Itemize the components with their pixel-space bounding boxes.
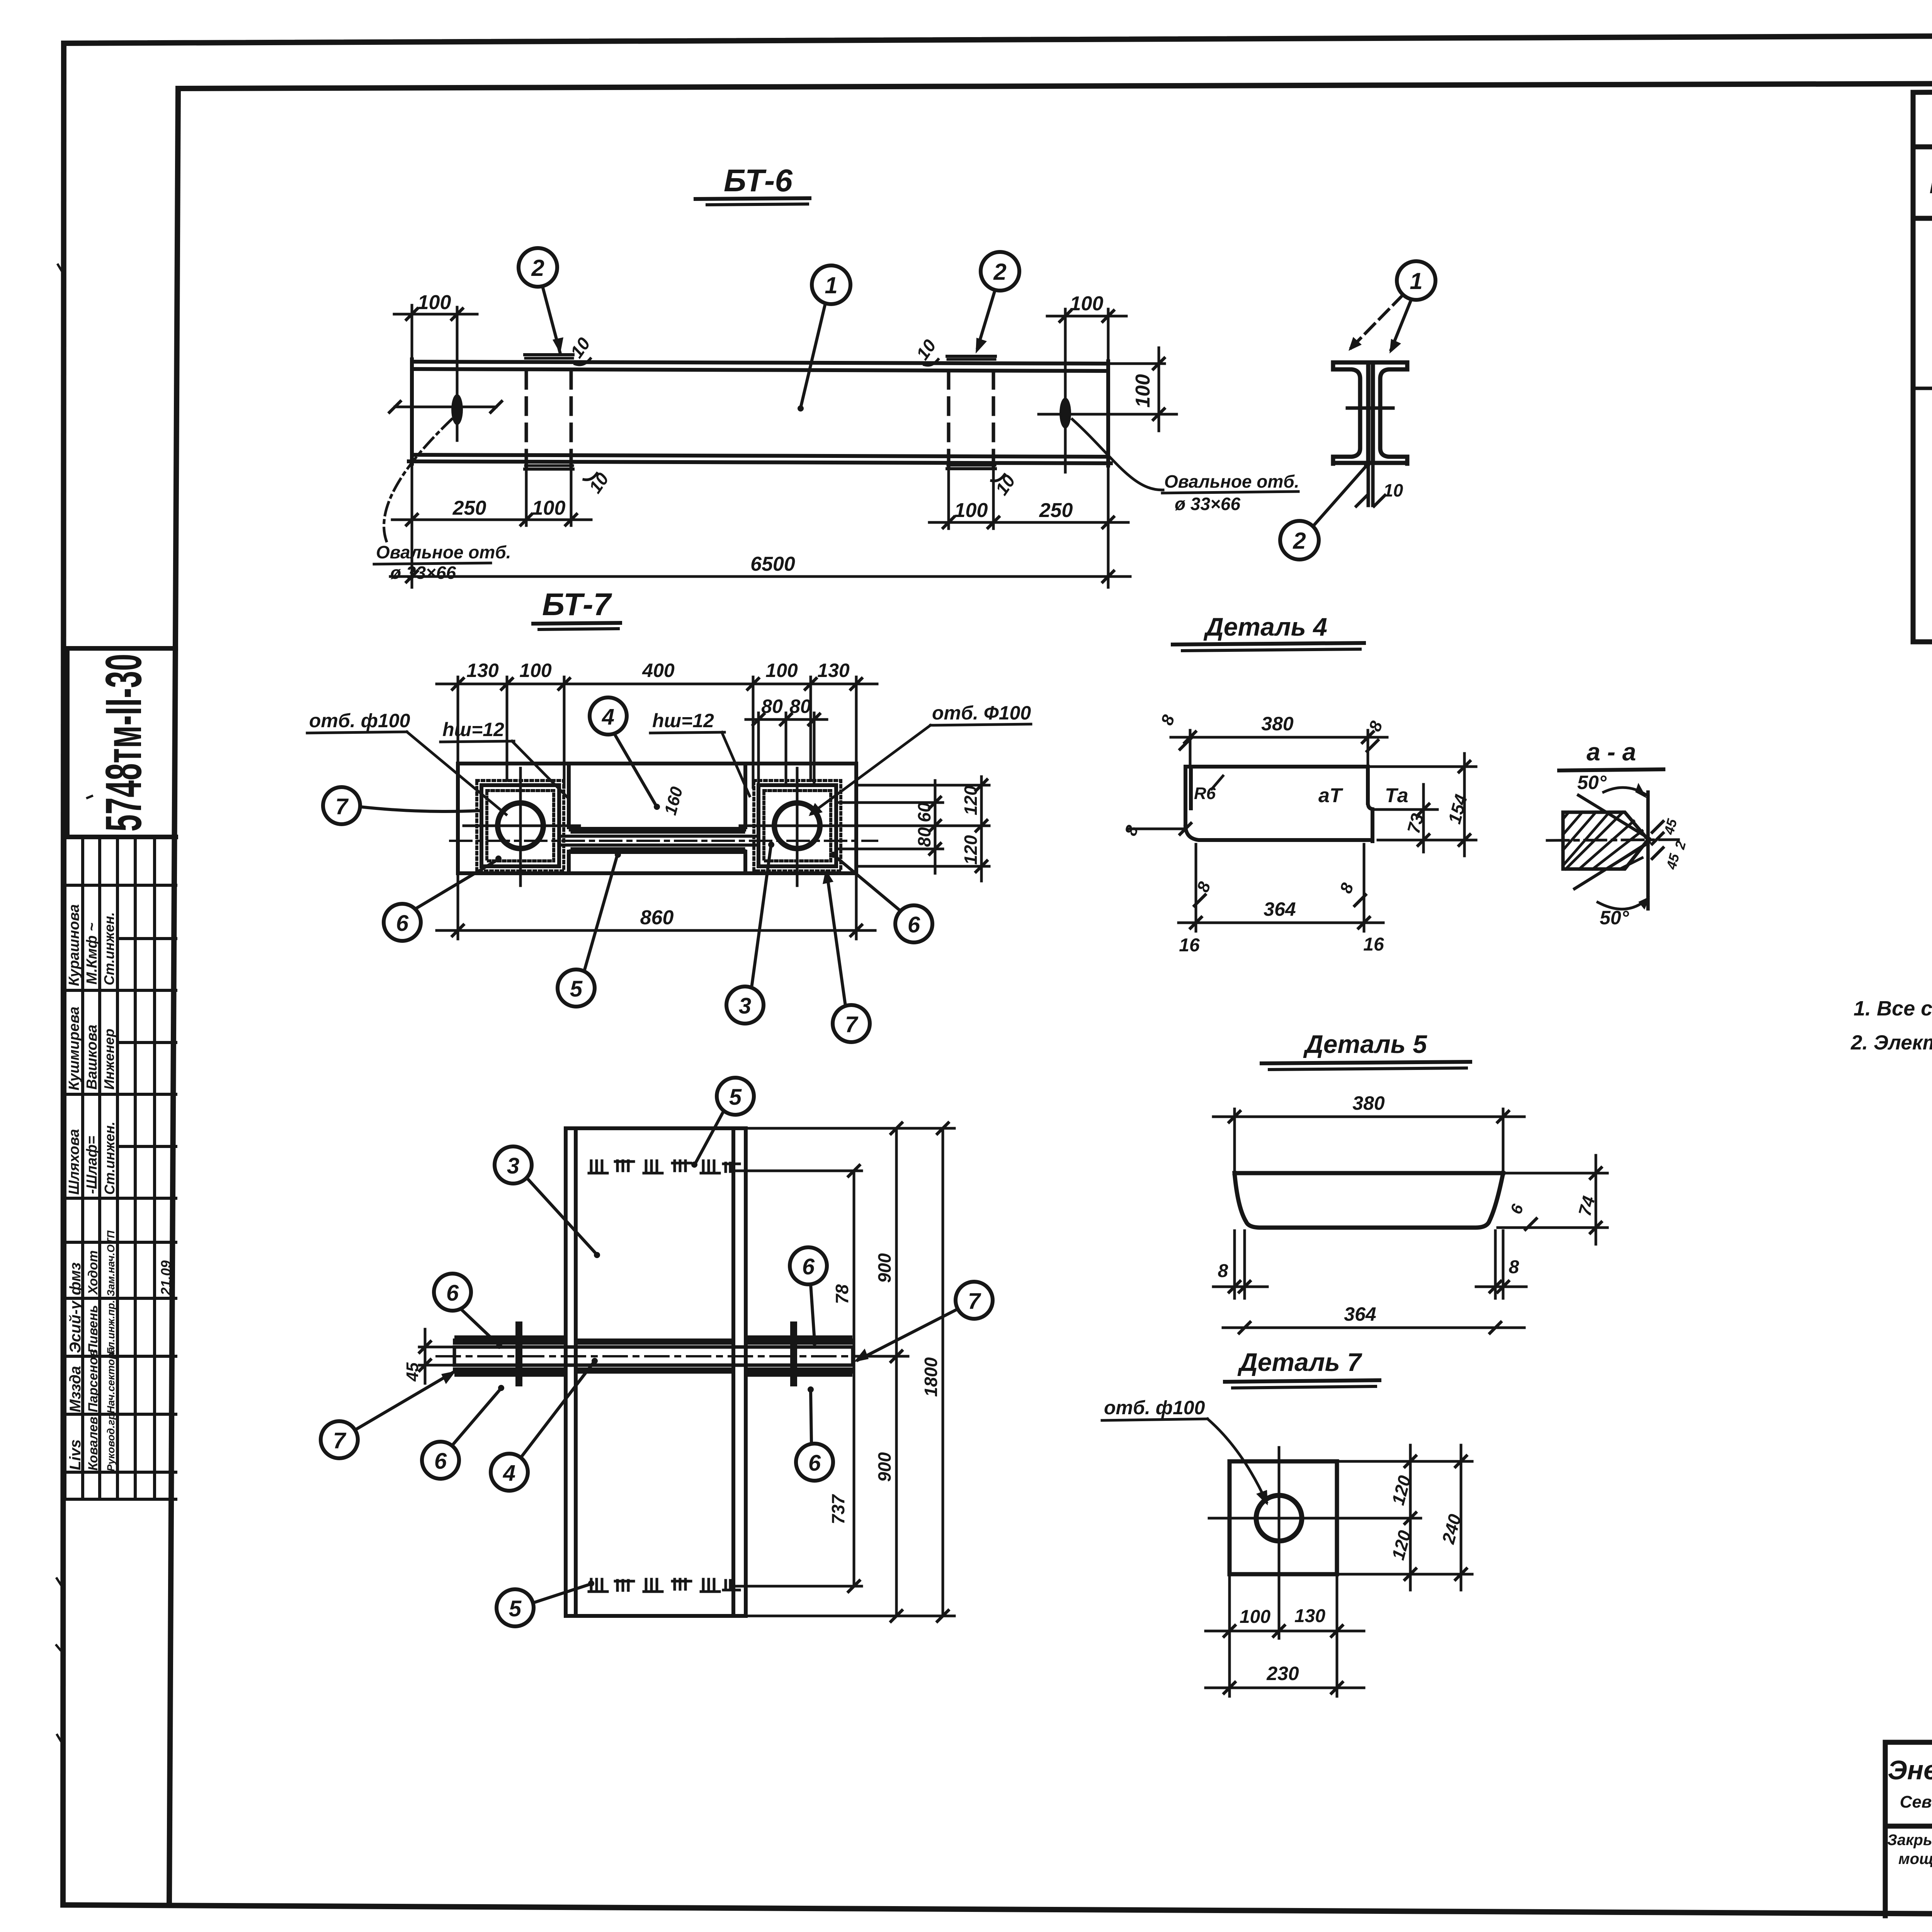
lower bevel line 50deg: [1575, 842, 1649, 889]
svg-text:Парсенов: Парсенов: [86, 1349, 100, 1412]
svg-text:380: 380: [1352, 1092, 1385, 1114]
svg-text:737: 737: [828, 1494, 848, 1524]
bottom plate left (det.2): [525, 468, 573, 471]
svg-text:Марка: Марка: [1930, 175, 1932, 198]
bottom plug weld marks: [589, 1579, 740, 1592]
svg-text:100: 100: [418, 291, 451, 314]
right dims: [733, 1128, 954, 1616]
hidden plate edges dashed left: [526, 372, 993, 468]
right dims 60 80 / 120 120: [838, 777, 989, 881]
svg-text:130: 130: [817, 660, 850, 681]
svg-text:100: 100: [532, 497, 566, 519]
oval hole left: [451, 394, 463, 425]
svg-text:Ст.инжен.: Ст.инжен.: [102, 1121, 117, 1195]
dim 80 80: [746, 713, 827, 784]
lower roles: [105, 1230, 117, 1471]
oval hole right: [1060, 398, 1071, 429]
top flange: [1333, 361, 1407, 365]
svg-text:Деталь 7: Деталь 7: [1237, 1348, 1362, 1376]
svg-text:Гл.инж.пр.: Гл.инж.пр.: [105, 1300, 117, 1354]
callout circle 1: [1397, 261, 1435, 300]
central webs: [1366, 362, 1371, 463]
svg-text:230: 230: [1266, 1663, 1299, 1684]
svg-text:7: 7: [333, 1428, 347, 1453]
svg-text:130: 130: [466, 660, 499, 681]
top dim chain 130 100 400 100 130: [437, 677, 877, 787]
svg-text:6: 6: [434, 1449, 447, 1474]
svg-text:2. Электроды для сварных швов: 2. Электроды для сварных швов типа 342 Г…: [1850, 1031, 1932, 1054]
svg-text:Ходот: Ходот: [86, 1250, 100, 1295]
svg-text:ø 33×66: ø 33×66: [1175, 494, 1240, 514]
svg-text:7: 7: [335, 794, 349, 819]
svg-text:7: 7: [845, 1012, 859, 1037]
svg-text:5748тм-II-30: 5748тм-II-30: [95, 654, 152, 832]
svg-text:6500: 6500: [750, 553, 795, 575]
svg-text:1. Все сварные шбы h = 6мм, к: 1. Все сварные шбы h = 6мм, кроме оговор…: [1854, 997, 1932, 1020]
svg-text:860: 860: [640, 906, 674, 929]
svg-text:Руковод.гр.: Руковод.гр.: [105, 1410, 117, 1471]
callout circle 2 left: [519, 248, 557, 287]
callout 5 top: [717, 1078, 754, 1115]
svg-text:2: 2: [531, 255, 544, 281]
svg-text:фмз: фмз: [67, 1262, 84, 1295]
svg-text:Закрытые подстанции 110/6-10кВ: Закрытые подстанции 110/6-10кВ: [1887, 1832, 1932, 1849]
lower plate det.5 seen from top: [572, 847, 744, 850]
bottom flange: [1333, 461, 1407, 465]
I40 beam front outline: [566, 1128, 746, 1616]
svg-text:Ст.инжен.: Ст.инжен.: [101, 912, 117, 985]
det.7 plate edge left: [515, 1321, 522, 1386]
svg-text:Энергосетьпроект: Энергосетьпроект: [1888, 1755, 1932, 1785]
svg-text:Вашкова: Вашкова: [84, 1025, 100, 1090]
svg-text:45: 45: [403, 1362, 422, 1382]
signature table rotated entries: names column: [66, 904, 82, 1195]
upper bevel line 50deg: [1578, 795, 1649, 838]
svg-text:6: 6: [908, 912, 920, 937]
roles column: [101, 912, 117, 1195]
chain dims bottom right: 100, 250: [929, 468, 1128, 587]
svg-text:4: 4: [602, 704, 614, 730]
dim 380 top: [1171, 730, 1387, 764]
svg-text:Инженер: Инженер: [101, 1029, 117, 1090]
svg-text:5: 5: [509, 1596, 522, 1621]
svg-text:Овальное отб.: Овальное отб.: [1164, 471, 1299, 492]
plate outline: [1235, 1173, 1503, 1228]
svg-text:50°: 50°: [1577, 772, 1607, 793]
callout 6 right-upper: [790, 1247, 827, 1284]
svg-text:hш=12: hш=12: [652, 710, 714, 731]
svg-text:250: 250: [1039, 499, 1073, 522]
hole: [1256, 1495, 1302, 1541]
svg-text:Деталь 5: Деталь 5: [1303, 1030, 1427, 1058]
svg-text:60: 60: [914, 802, 934, 822]
svg-text:1: 1: [825, 272, 837, 298]
dim 6500: [390, 575, 1130, 578]
svg-text:10: 10: [1383, 480, 1403, 500]
bottom dims 8 364 8 16 16: [1179, 844, 1383, 931]
svg-text:1: 1: [1410, 268, 1422, 294]
svg-text:3: 3: [507, 1153, 519, 1179]
svg-text:6: 6: [808, 1451, 821, 1476]
svg-text:2: 2: [1293, 528, 1306, 554]
svg-text:Та: Та: [1385, 784, 1408, 807]
svg-text:отб. ф100: отб. ф100: [309, 710, 410, 731]
svg-text:Шляхова: Шляхова: [66, 1129, 82, 1195]
svg-text:5: 5: [570, 976, 583, 1002]
bottom flange lines: [412, 455, 1108, 457]
centreline: [1547, 840, 1679, 840]
svg-text:6: 6: [396, 911, 409, 936]
svg-text:16: 16: [1363, 934, 1384, 955]
dim 364: [1223, 1327, 1524, 1329]
horizontal plate det.4 through beam: [454, 1347, 853, 1365]
svg-text:7: 7: [968, 1289, 981, 1314]
svg-text:120: 120: [961, 786, 981, 815]
callout circle 2: [1280, 521, 1319, 560]
svg-text:Livs: Livs: [67, 1439, 84, 1470]
svg-text:21.09: 21.09: [158, 1260, 174, 1296]
right dims 120 120 240: [1339, 1445, 1472, 1590]
dim 380: [1213, 1109, 1524, 1170]
svg-text:80: 80: [914, 827, 934, 847]
svg-text:Овальное отб.: Овальное отб.: [376, 542, 511, 562]
svg-text:100: 100: [1240, 1607, 1270, 1627]
svg-text:2: 2: [993, 259, 1006, 285]
callout circle 1: [812, 265, 850, 304]
svg-text:900: 900: [874, 1452, 895, 1482]
small side dims: [1651, 820, 1664, 833]
dim 100 vertical right: [1111, 348, 1165, 431]
svg-text:6: 6: [802, 1254, 815, 1279]
bottom plate right (det.2): [947, 467, 995, 470]
svg-text:Ковалев: Ковалев: [86, 1417, 100, 1471]
table outer frame: [1913, 88, 1932, 642]
svg-text:100: 100: [954, 499, 988, 522]
svg-text:БТ-7: БТ-7: [542, 587, 612, 622]
callout circle 2 right: [981, 252, 1019, 291]
web edge lines: [559, 835, 759, 838]
bottom dims 100 130 230: [1206, 1577, 1364, 1696]
svg-text:100: 100: [1132, 374, 1154, 408]
callout 6 right-lower: [796, 1444, 833, 1481]
callout 7 left-lower: [321, 1421, 358, 1458]
right dims 73 154: [1370, 753, 1476, 856]
right hole: [774, 803, 820, 849]
svg-text:БТ-6: БТ-6: [724, 163, 793, 198]
svg-text:3: 3: [739, 993, 751, 1019]
dim 100 top-left: [394, 305, 477, 359]
mid tick line at hole level: [1347, 406, 1393, 410]
callout 6 bottom-right2: [895, 905, 932, 942]
callout 7 bottom-right: [833, 1005, 870, 1042]
crosshairs: [1278, 1447, 1281, 1590]
callout 7 left: [323, 787, 360, 824]
chain dims bottom left: 250, 100: [392, 466, 591, 587]
svg-text:80: 80: [761, 696, 783, 717]
scan specks: [56, 265, 92, 1741]
signature table grid: [65, 837, 176, 1499]
left end plate (det.7): [481, 785, 559, 866]
svg-text:364: 364: [1344, 1303, 1376, 1325]
I-section of two channels: [1333, 362, 1407, 464]
svg-text:8: 8: [1509, 1257, 1519, 1277]
svg-text:Зам.нач.ОТП: Зам.нач.ОТП: [105, 1230, 117, 1296]
plan outline: [458, 764, 856, 873]
callout 4 bottom-left: [491, 1454, 528, 1491]
bottom small dims 8 8: [1213, 1231, 1526, 1298]
callout 6 left-upper: [434, 1274, 471, 1311]
svg-text:Эсий-у: Эсий-у: [67, 1300, 84, 1353]
top plate right (det.2): [947, 355, 995, 358]
dim 100 top-right: [1047, 309, 1126, 359]
svg-text:ø 33×66: ø 33×66: [390, 563, 456, 583]
title block frame: [1885, 1742, 1932, 1917]
svg-text:100: 100: [1070, 293, 1104, 315]
svg-text:120: 120: [961, 835, 981, 865]
beam body: [409, 359, 1111, 466]
plate centreline: [437, 1355, 873, 1357]
centre plate det.4 weld zigzag borders: [567, 766, 571, 829]
svg-text:аТ: аТ: [1318, 784, 1344, 807]
dim 74 right: [1498, 1155, 1607, 1244]
svg-text:Пивень: Пивень: [86, 1305, 100, 1353]
vertical edge line: [1646, 792, 1650, 909]
svg-text:78: 78: [832, 1284, 852, 1304]
beam ends: [410, 359, 414, 464]
svg-text:8: 8: [1218, 1261, 1228, 1281]
svg-text:100: 100: [519, 660, 552, 681]
dim 45 left: [419, 1329, 452, 1383]
svg-text:6: 6: [446, 1281, 459, 1306]
svg-text:hш=12: hш=12: [442, 719, 504, 740]
svg-text:1800: 1800: [921, 1357, 941, 1397]
top plug weld marks: [589, 1161, 740, 1173]
weld hatch over plate: [456, 1342, 851, 1371]
svg-text:100: 100: [765, 660, 798, 681]
svg-text:Северо-Западное отделение: Северо-Западное отделение: [1900, 1793, 1932, 1811]
stamp box 5748tm-II-30: [67, 648, 176, 837]
weld wedge hatched: [1563, 812, 1648, 869]
svg-text:Деталь 4: Деталь 4: [1203, 612, 1327, 641]
svg-text:16: 16: [1179, 935, 1200, 956]
weld teeth around left plate: [487, 791, 554, 861]
top plate left (det.2): [525, 353, 573, 356]
callout 5 bottom: [497, 1589, 534, 1626]
callout 5 bottom: [558, 969, 595, 1007]
svg-text:отб. ф100: отб. ф100: [1104, 1397, 1205, 1418]
callout 4 top: [590, 697, 627, 735]
svg-text:М.Кмф ~: М.Кмф ~: [84, 923, 100, 985]
svg-text:130: 130: [1294, 1606, 1325, 1626]
svg-text:отб. Ф100: отб. Ф100: [932, 702, 1031, 724]
svg-text:250: 250: [452, 497, 486, 519]
svg-text:364: 364: [1264, 898, 1296, 920]
plate outline: [1185, 767, 1372, 841]
svg-text:-Шлаф=: -Шлаф=: [84, 1136, 100, 1194]
dim 860: [437, 876, 875, 939]
lower names: [86, 1250, 100, 1471]
table row lines: [1913, 261, 1932, 601]
svg-text:5: 5: [729, 1085, 742, 1110]
svg-text:Кушмирева: Кушмирева: [66, 1007, 82, 1090]
top flange lines: [412, 362, 1108, 364]
signatures scribbles column: [84, 923, 100, 1194]
right end plate (det.7): [759, 785, 836, 866]
svg-text:4: 4: [503, 1461, 515, 1486]
svg-text:900: 900: [874, 1253, 895, 1283]
svg-text:Нач.сектора: Нач.сектора: [105, 1347, 117, 1413]
svg-text:400: 400: [642, 660, 675, 681]
lower signature rows: scribbles: [67, 1262, 84, 1470]
svg-text:а - а: а - а: [1587, 738, 1636, 766]
det.7 plate edge right: [790, 1321, 797, 1386]
callout 7 right: [956, 1282, 993, 1319]
callout 6 left-lower: [422, 1442, 459, 1479]
left dim 8: [1128, 828, 1182, 830]
svg-text:80: 80: [789, 696, 811, 717]
svg-text:380: 380: [1261, 713, 1294, 735]
left hole: [498, 803, 543, 849]
callout 3: [495, 1146, 532, 1184]
callout 6 bottom-left: [384, 904, 421, 941]
svg-text:Мззда: Мззда: [67, 1366, 84, 1412]
callout 3 bottom: [726, 986, 764, 1024]
square plate: [1230, 1461, 1337, 1574]
svg-text:Курашнова: Курашнова: [66, 904, 82, 986]
plate tail below: [1368, 463, 1373, 505]
svg-text:мощностью до 126(2×63) МВа с: мощностью до 126(2×63) МВа с: [1898, 1850, 1932, 1867]
